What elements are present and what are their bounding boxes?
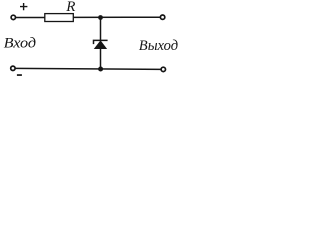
junction: node B (bottom of zener branch) — [98, 67, 103, 72]
label: − polarity mark — [17, 74, 22, 76]
wire: zener branch from node A down to cathode bar — [100, 18, 102, 41]
wire: bottom rail — [15, 68, 160, 69]
label: + polarity mark — [20, 3, 27, 10]
zener diode VD1 cathode bar with bent zener tail — [94, 40, 108, 44]
wire: top rail from input terminal to resistor — [16, 17, 45, 19]
zener diode VD1 anode triangle — [94, 41, 106, 49]
terminal: input + (top-left open circle) — [11, 15, 15, 19]
junction: node A (top of zener branch) — [98, 15, 103, 20]
wire: top rail from resistor to output terminal — [73, 16, 160, 18]
terminal: output − (bottom-right open circle) — [161, 67, 165, 71]
terminal: output + (top-right open circle) — [160, 15, 164, 19]
svg-text:R: R — [65, 0, 75, 15]
svg-text:Вход: Вход — [4, 36, 37, 52]
terminal: input − (bottom-left open circle) — [11, 66, 15, 70]
resistor R — [45, 14, 74, 22]
svg-text:Выход: Выход — [139, 38, 178, 54]
wire: zener branch from anode down to node B — [100, 47, 102, 69]
